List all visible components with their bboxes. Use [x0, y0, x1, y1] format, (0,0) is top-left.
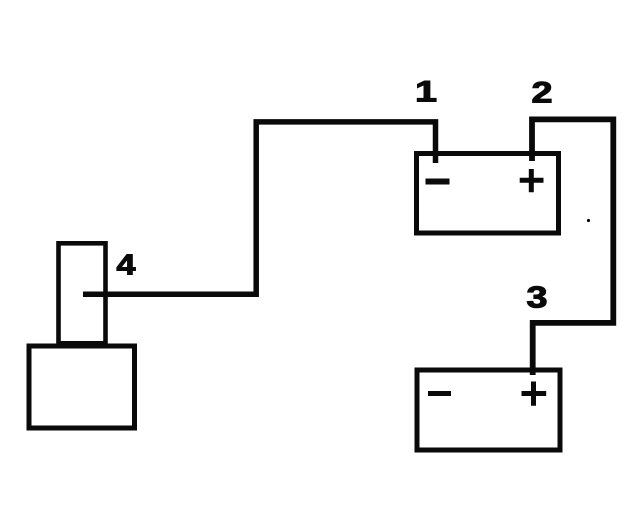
battery B2 (bottom, discharged battery) — [417, 370, 560, 450]
engine ground post (upper block of item 4) — [59, 243, 106, 343]
wire: terminal 2 to terminal 3 — [532, 119, 613, 375]
battery B2 positive terminal mark — [522, 382, 547, 406]
engine block base (lower block of item 4) — [29, 346, 135, 428]
battery B2 negative terminal mark — [428, 391, 451, 396]
svg-text:3: 3 — [527, 280, 548, 315]
svg-text:2: 2 — [532, 77, 553, 110]
battery B1 positive terminal mark — [520, 169, 544, 192]
wire: terminal 1 to engine ground point 4 — [83, 122, 436, 294]
svg-text:1: 1 — [415, 76, 437, 109]
battery B1 (top, booster battery) — [417, 154, 559, 234]
svg-text:4: 4 — [117, 250, 136, 282]
battery B1 negative terminal mark — [426, 179, 450, 185]
